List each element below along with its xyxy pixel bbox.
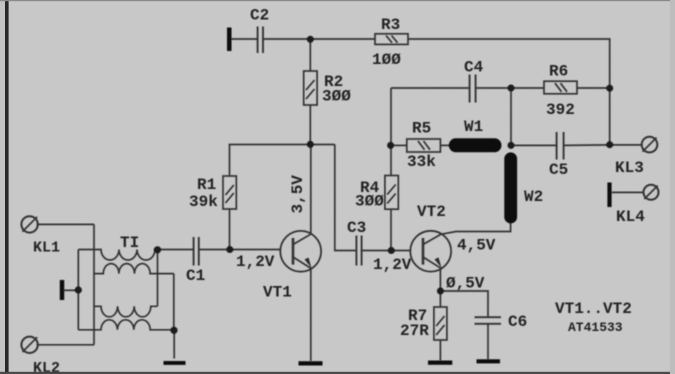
wire R5 right to W1 bbox=[440, 144, 450, 146]
svg-text:3ØØ: 3ØØ bbox=[322, 88, 351, 106]
wire left winding bus bbox=[77, 250, 79, 330]
capacitor C5 bbox=[557, 132, 564, 160]
svg-text:C6: C6 bbox=[508, 313, 527, 331]
svg-text:C1: C1 bbox=[186, 267, 205, 285]
wire w2-right down to ground node bbox=[173, 274, 175, 330]
capacitor C1 bbox=[194, 237, 199, 266]
resistor R2 300 bbox=[304, 71, 317, 105]
resistor R6 392 bbox=[544, 81, 577, 94]
svg-text:VT1: VT1 bbox=[263, 284, 292, 302]
svg-text:3ØØ: 3ØØ bbox=[355, 193, 384, 211]
svg-text:3,5V: 3,5V bbox=[289, 175, 307, 214]
svg-text:R5: R5 bbox=[412, 120, 431, 138]
wire C5 to KL3 node bbox=[564, 144, 610, 147]
wire C1 to VT1 base bbox=[199, 249, 281, 251]
wire top rail from antenna bar to C2 bbox=[231, 38, 257, 40]
wire emitter node right to C6 bbox=[440, 291, 488, 317]
ground T1 bbox=[164, 361, 186, 365]
wire C6 bottom to ground bbox=[487, 324, 489, 360]
transistor VT1 bbox=[280, 231, 321, 272]
svg-text:C5: C5 bbox=[549, 161, 568, 179]
wire node top to R2 bbox=[309, 39, 311, 71]
node KL3 bbox=[606, 141, 613, 148]
wire R1 top horizontal rail to C3 branch elbow bbox=[230, 145, 335, 177]
wire R3 right to top-right corner and down to KL3 column bbox=[408, 39, 610, 145]
svg-text:1,2V: 1,2V bbox=[236, 253, 275, 271]
svg-text:1,2V: 1,2V bbox=[373, 256, 412, 274]
svg-text:R6: R6 bbox=[549, 63, 568, 81]
resistor R1 39k bbox=[223, 176, 236, 209]
scan border bottom bbox=[0, 372, 675, 374]
svg-text:VT1..VT2: VT1..VT2 bbox=[555, 300, 632, 318]
wire C4-node down to W1 node bbox=[510, 88, 512, 145]
transformer T1 winding 4 bbox=[78, 320, 174, 330]
svg-text:KL1: KL1 bbox=[33, 240, 60, 257]
wire T1 output node to C1 bbox=[158, 249, 194, 251]
node VT2 emitter bbox=[437, 288, 444, 295]
svg-text:KL3: KL3 bbox=[615, 159, 644, 177]
scan border left bbox=[0, 0, 5, 374]
svg-text:392: 392 bbox=[546, 101, 575, 119]
svg-text:C4: C4 bbox=[464, 59, 484, 77]
wire ground node stub T1 bbox=[173, 330, 175, 359]
wire VT2 emitter down bbox=[439, 268, 441, 307]
node W1/W2/C5 bbox=[508, 142, 515, 149]
stripline W1 bbox=[449, 138, 502, 152]
svg-text:27R: 27R bbox=[400, 322, 429, 340]
wire KL4 lead bbox=[612, 191, 644, 193]
resistor R5 33k bbox=[407, 139, 441, 152]
transformer T1 winding 2 bbox=[94, 264, 174, 274]
wire elbow down to C3 left plate bbox=[335, 145, 357, 251]
capacitor C2 bbox=[258, 27, 263, 54]
wire C4 right to R6 left through node bbox=[476, 87, 544, 89]
transistor VT2 bbox=[410, 231, 451, 272]
node R6 right bbox=[606, 85, 613, 92]
scan border top bbox=[0, 0, 675, 1]
wire R2 bottom to collector node bbox=[309, 105, 311, 145]
antenna bar top-left bbox=[227, 28, 232, 52]
resistor R4 300 bbox=[385, 176, 398, 210]
wire R7 bottom to ground bbox=[439, 340, 441, 361]
wire KL1 lead bbox=[37, 223, 94, 225]
wire R5/R4 column bbox=[390, 88, 392, 176]
wire KL1/KL2 vertical bus bbox=[93, 224, 95, 344]
svg-text:C3: C3 bbox=[347, 219, 366, 237]
transformer T1 winding 1 bbox=[78, 250, 157, 261]
wire R4 bottom to VT2 base node bbox=[390, 209, 392, 250]
node R1 base bbox=[226, 246, 233, 253]
capacitor C4 bbox=[470, 75, 476, 103]
ground C6 bbox=[477, 359, 501, 363]
scan border right bbox=[670, 0, 675, 374]
wire C2 to R3 through node bbox=[264, 38, 376, 40]
wire R6 right to corner column bbox=[577, 87, 610, 89]
terminal KL2 bbox=[21, 337, 37, 353]
svg-text:R1: R1 bbox=[197, 176, 216, 194]
terminal KL3 bbox=[642, 137, 658, 153]
ground R7 bbox=[428, 361, 452, 365]
wire VT1 emitter to ground bbox=[310, 269, 312, 361]
terminal KL4 bbox=[644, 185, 659, 200]
svg-text:33k: 33k bbox=[407, 153, 436, 171]
stripline W2 bbox=[504, 152, 517, 223]
node T1 ground bbox=[170, 327, 177, 334]
node R2 bottom / VT1 collector bbox=[307, 141, 314, 148]
node C4/R6 bbox=[508, 85, 515, 92]
wire blocking-cap stub bbox=[64, 289, 78, 291]
blocking bar KL4 bbox=[607, 183, 611, 208]
node R5/R4 column bbox=[387, 142, 394, 149]
wire W1 node to C5 bbox=[511, 144, 556, 146]
wire R5 left lead bbox=[391, 144, 407, 146]
blocking bar left bbox=[60, 280, 64, 300]
svg-text:39k: 39k bbox=[189, 193, 218, 211]
terminal KL1 bbox=[21, 216, 37, 232]
svg-text:KL4: KL4 bbox=[616, 208, 645, 226]
svg-text:1ØØ: 1ØØ bbox=[372, 51, 401, 69]
node T1 to C1 bbox=[154, 246, 161, 253]
svg-text:W1: W1 bbox=[464, 118, 483, 136]
resistor R3 100 bbox=[375, 34, 408, 45]
wire VT2 collector to W2 bbox=[442, 223, 511, 235]
wire VT1 collector bbox=[310, 145, 312, 234]
wire C4 branch top bbox=[391, 87, 469, 89]
ground VT1 bbox=[299, 361, 323, 365]
svg-text:VT2: VT2 bbox=[417, 203, 446, 221]
svg-text:C2: C2 bbox=[250, 7, 269, 25]
svg-text:W2: W2 bbox=[524, 188, 543, 206]
wire w1-right down to w3-right bbox=[157, 250, 159, 307]
capacitor C3 bbox=[356, 236, 361, 266]
node top C2/R2 bbox=[307, 36, 314, 43]
capacitor C6 bbox=[475, 317, 502, 324]
wire C3 right to VT2 base bbox=[362, 250, 411, 252]
svg-text:4,5V: 4,5V bbox=[457, 237, 496, 255]
svg-text:Ø,5V: Ø,5V bbox=[446, 275, 485, 293]
wire R1 bottom to base node bbox=[229, 209, 231, 250]
node blocking cap bbox=[75, 286, 82, 293]
svg-text:KL2: KL2 bbox=[33, 360, 60, 374]
node VT2 base bbox=[388, 247, 395, 254]
svg-text:TI: TI bbox=[120, 234, 139, 252]
wire KL2 lead bbox=[37, 344, 94, 346]
resistor R7 27R bbox=[434, 307, 447, 340]
wire KL3 lead bbox=[610, 144, 642, 146]
svg-text:R3: R3 bbox=[381, 16, 400, 34]
transformer T1 winding 3 bbox=[94, 306, 157, 317]
svg-text:AT41533: AT41533 bbox=[568, 320, 623, 335]
